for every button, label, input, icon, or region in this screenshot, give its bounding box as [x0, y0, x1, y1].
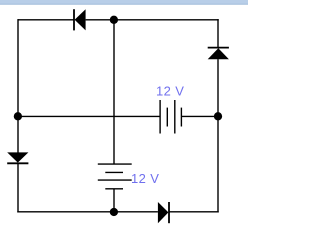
wire: battery B2 down to node D: [113, 189, 115, 212]
window title-bar strip (top edge): [0, 0, 248, 5]
wire: left side, node C to diode D3: [17, 116, 19, 152]
node D junction dot (bottom): [110, 208, 118, 216]
diode D3 (left side, cathode down / pointing down): [7, 152, 28, 163]
wire: right side, diode D2 to node B: [217, 59, 219, 116]
node C junction dot (left): [14, 112, 22, 120]
wire: top side, node A to top-right corner: [114, 19, 219, 21]
wire: right side, node B to bottom-right corner: [217, 116, 219, 212]
diode D2 (right side, cathode up / pointing up): [208, 48, 229, 60]
svg-text:12 V: 12 V: [131, 171, 159, 186]
wire: bottom side, left corner to node D: [17, 211, 114, 213]
wire: top side, diode to junction node A: [86, 19, 114, 21]
wire: battery B1 to node B: [181, 115, 218, 117]
node B junction dot (right): [214, 112, 222, 120]
wire: left side, top-left corner down to node C: [17, 19, 19, 116]
wire: middle horizontal, node C to battery B1: [18, 115, 160, 117]
diode D4 (bottom wire, cathode right / pointing right): [158, 202, 169, 223]
diode D1 (top wire, cathode left / pointing left): [74, 9, 86, 30]
battery B1 (12 V, on middle horizontal wire): plates: [160, 100, 181, 134]
wire: bottom side, node D to diode D4: [114, 211, 158, 213]
wire: middle vertical, node A down to battery B2: [113, 20, 115, 164]
wire: left side, diode D3 to bottom-left corner: [17, 164, 19, 213]
svg-text:12 V: 12 V: [156, 83, 184, 98]
battery B2 (12 V, on middle vertical wire): plates: [98, 164, 132, 189]
wire: bottom side, diode D4 to bottom-right corner: [169, 211, 219, 213]
wire: right side, corner down to diode D2: [217, 19, 219, 47]
node A junction dot (top): [110, 16, 118, 24]
wire: top side, left segment (corner to diode): [18, 19, 75, 21]
